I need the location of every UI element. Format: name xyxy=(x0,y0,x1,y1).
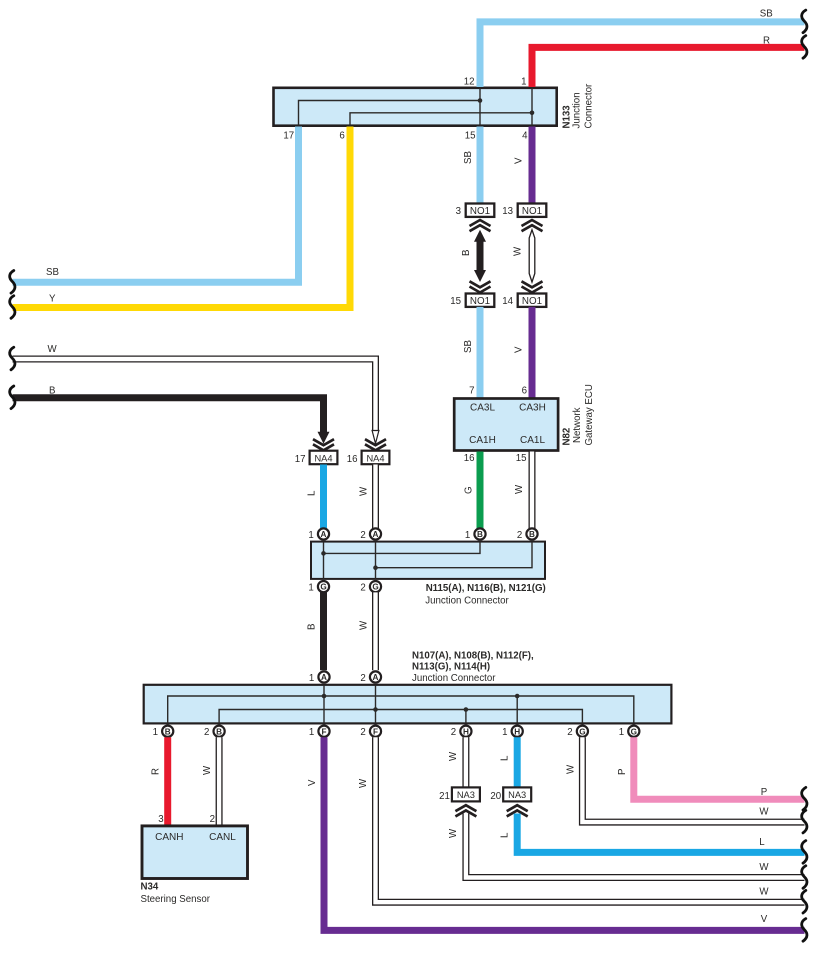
svg-text:1: 1 xyxy=(308,530,313,541)
svg-text:Gateway ECU: Gateway ECU xyxy=(584,384,595,445)
node N107 pin B2 xyxy=(214,726,225,737)
arrow chevrons above NA4 pin16 xyxy=(365,439,386,445)
connector NO1 pin14 box xyxy=(518,294,547,307)
wire V vertical N133 pin4 to NO1 pin13 xyxy=(529,127,536,204)
svg-text:SB: SB xyxy=(760,9,773,20)
arrow chevrons below NO1 pin13 xyxy=(522,220,543,226)
connector NO1 pin15 box xyxy=(466,294,495,307)
svg-text:G: G xyxy=(631,727,637,736)
svg-text:N107(A), N108(B), N112(F),: N107(A), N108(B), N112(F), xyxy=(412,651,534,662)
svg-text:Steering Sensor: Steering Sensor xyxy=(141,894,211,905)
svg-text:W: W xyxy=(759,807,769,818)
svg-text:16: 16 xyxy=(464,453,475,464)
svg-text:CA1L: CA1L xyxy=(520,435,545,446)
svg-text:W: W xyxy=(448,828,459,838)
junction dot N133 pin12 net xyxy=(478,98,483,103)
node N115 pin G1 xyxy=(318,581,329,592)
wire Y yellow left from N133 pin6 xyxy=(13,127,351,308)
junction dot N107 H1 net xyxy=(515,694,520,699)
wire W white left to NA4 pin16 xyxy=(13,359,376,431)
svg-text:W: W xyxy=(358,778,369,788)
svg-text:15: 15 xyxy=(450,296,461,307)
junction dot N107 A1 net xyxy=(322,694,327,699)
svg-text:SB: SB xyxy=(463,340,474,353)
wire W white NA3 pin21 to right edge xyxy=(466,814,805,878)
svg-text:V: V xyxy=(761,914,768,925)
svg-text:N115(A), N116(B), N121(G): N115(A), N116(B), N121(G) xyxy=(426,583,546,594)
arrow chevrons below NA3 pin21 xyxy=(455,805,476,811)
wire L blue N107 H1 to NA3 pin20 xyxy=(514,737,521,788)
svg-text:CANH: CANH xyxy=(155,832,183,843)
svg-text:V: V xyxy=(514,346,525,353)
svg-text:L: L xyxy=(500,755,511,761)
svg-text:2: 2 xyxy=(360,673,365,684)
svg-text:16: 16 xyxy=(347,454,358,465)
svg-text:H: H xyxy=(463,727,469,736)
svg-text:B: B xyxy=(461,250,472,256)
svg-text:B: B xyxy=(477,530,483,539)
wire R red top right xyxy=(532,47,805,87)
svg-text:NA4: NA4 xyxy=(366,453,384,463)
svg-text:4: 4 xyxy=(522,130,528,141)
svg-text:W: W xyxy=(202,765,213,775)
svg-text:B: B xyxy=(49,386,55,397)
svg-text:1: 1 xyxy=(502,727,507,738)
svg-text:W: W xyxy=(759,862,769,873)
svg-text:17: 17 xyxy=(283,130,294,141)
junction dot N107 A2 net xyxy=(373,707,378,712)
svg-text:6: 6 xyxy=(339,130,344,141)
svg-text:B: B xyxy=(216,727,222,736)
svg-text:Y: Y xyxy=(49,294,56,305)
wire V vertical NO1 pin14 to N82 pin6 xyxy=(529,307,536,399)
wire V violet N107 F1 to right edge xyxy=(324,737,805,930)
svg-text:L: L xyxy=(307,490,318,496)
svg-text:SB: SB xyxy=(463,151,474,164)
sensor N34 box xyxy=(142,826,248,879)
svg-text:21: 21 xyxy=(439,791,450,802)
wire W white N107 H2 to NA3 pin21 xyxy=(462,737,469,788)
break squiggle W H2 right xyxy=(802,866,807,889)
arrow chevrons above NO1 pin14 xyxy=(522,281,543,287)
node N115 pin G2 xyxy=(370,581,381,592)
break squiggle L right xyxy=(802,841,807,864)
arrow chevrons above NA4 pin17 xyxy=(313,439,334,445)
node N107 pin G2 xyxy=(577,726,588,737)
svg-text:CA1H: CA1H xyxy=(469,435,496,446)
svg-text:NO1: NO1 xyxy=(522,206,542,217)
svg-text:6: 6 xyxy=(522,386,527,397)
svg-text:G: G xyxy=(320,583,326,592)
svg-text:CA3H: CA3H xyxy=(519,403,546,414)
node N115 pin B1 xyxy=(474,528,485,539)
svg-text:SB: SB xyxy=(46,267,59,278)
svg-text:P: P xyxy=(761,787,767,798)
wire G green N82 pin16 to N115 B1 xyxy=(477,452,484,529)
junction connector N107 box xyxy=(144,685,672,724)
wire B black left to NA4 pin17 xyxy=(13,398,324,432)
svg-text:15: 15 xyxy=(465,130,476,141)
svg-text:13: 13 xyxy=(502,206,513,217)
node N107 pin A2 xyxy=(370,671,381,682)
break squiggle V right xyxy=(802,919,807,942)
svg-text:CANL: CANL xyxy=(209,832,236,843)
wire N133 internal pin12-pin15 vertical xyxy=(479,88,481,126)
svg-text:NO1: NO1 xyxy=(522,296,542,307)
wire SB light blue top right xyxy=(480,22,805,87)
wire P pink N107 G1 to right edge xyxy=(634,737,805,799)
svg-text:14: 14 xyxy=(502,296,513,307)
svg-text:7: 7 xyxy=(469,386,474,397)
break squiggle Y left xyxy=(10,296,15,319)
junction dot N115 A2 net xyxy=(373,565,378,570)
break squiggle SB left xyxy=(10,271,15,294)
svg-text:1: 1 xyxy=(619,727,624,738)
svg-text:F: F xyxy=(373,727,378,736)
node N107 pin A1 xyxy=(318,671,329,682)
wire W white N107 G2 to right edge xyxy=(582,737,804,822)
connector NA4 pin17 box xyxy=(310,451,338,465)
svg-text:1: 1 xyxy=(465,530,470,541)
svg-text:W: W xyxy=(514,484,525,494)
svg-text:Junction: Junction xyxy=(572,92,583,128)
svg-text:NA3: NA3 xyxy=(508,790,526,800)
wire N133 internal pin6 to pin4 net xyxy=(350,113,532,126)
svg-text:Network: Network xyxy=(572,407,583,443)
svg-text:CA3L: CA3L xyxy=(470,403,495,414)
svg-text:NO1: NO1 xyxy=(470,206,490,217)
svg-text:A: A xyxy=(321,673,327,682)
svg-text:1: 1 xyxy=(521,76,526,87)
svg-text:15: 15 xyxy=(516,453,527,464)
node N107 pin H2 xyxy=(460,726,471,737)
connector NA3 pin21 box xyxy=(452,787,480,801)
svg-text:B: B xyxy=(529,530,535,539)
wire N115 internal A2 to B2 xyxy=(376,542,533,568)
svg-text:H: H xyxy=(514,727,520,736)
svg-text:2: 2 xyxy=(360,727,365,738)
node N107 pin B1 xyxy=(162,726,173,737)
svg-text:G: G xyxy=(372,583,378,592)
svg-text:P: P xyxy=(617,769,628,775)
wire N107 internal A2-F2 vertical xyxy=(375,685,377,724)
wire W white N82 pin15 to N115 B2 xyxy=(529,452,536,529)
wire N107 internal H2 vertical xyxy=(465,710,467,724)
svg-text:2: 2 xyxy=(210,814,215,825)
arrow chevrons below NO1 pin3 xyxy=(470,220,491,226)
connector NO1 pin13 box xyxy=(518,204,547,217)
svg-text:W: W xyxy=(513,246,524,256)
arrow chevrons above NO1 pin15 xyxy=(470,281,491,287)
svg-text:NA4: NA4 xyxy=(314,453,332,463)
svg-text:12: 12 xyxy=(464,76,475,87)
wire N107 internal A1-F1 vertical xyxy=(323,685,325,724)
wire N115 internal A1-G1 vertical xyxy=(323,542,325,579)
junction dot N133 pin4 net xyxy=(530,111,535,116)
connector NA3 pin20 box xyxy=(503,787,531,801)
svg-text:2: 2 xyxy=(517,530,522,541)
wire N107 internal lower net B2-A2-H2-G2 xyxy=(219,710,582,724)
svg-text:Junction Connector: Junction Connector xyxy=(425,596,509,607)
svg-text:1: 1 xyxy=(309,673,314,684)
svg-text:B: B xyxy=(165,727,171,736)
svg-text:3: 3 xyxy=(456,206,461,217)
svg-text:A: A xyxy=(373,530,379,539)
break squiggle W F2 right xyxy=(802,890,807,913)
svg-text:2: 2 xyxy=(360,530,365,541)
node N107 pin H1 xyxy=(512,726,523,737)
node N115 pin B2 xyxy=(526,528,537,539)
wire N107 internal H1 vertical xyxy=(516,696,518,723)
svg-text:B: B xyxy=(307,624,318,630)
wire N133 internal pin17 to pin12 net xyxy=(299,101,481,126)
wire W white twisted pair link xyxy=(529,230,535,282)
svg-text:1: 1 xyxy=(309,727,314,738)
svg-text:W: W xyxy=(48,344,58,355)
wire W white NA4 pin16 to N115 A2 xyxy=(372,465,379,529)
svg-text:W: W xyxy=(359,620,370,630)
svg-text:R: R xyxy=(151,768,162,775)
svg-text:W: W xyxy=(359,486,370,496)
svg-text:N113(G), N114(H): N113(G), N114(H) xyxy=(412,662,490,673)
break squiggle B left xyxy=(10,386,15,409)
break squiggle SB top right xyxy=(802,10,807,33)
svg-text:NA3: NA3 xyxy=(457,790,475,800)
svg-text:2: 2 xyxy=(360,582,365,593)
node N115 pin A1 xyxy=(318,528,329,539)
wire W white N107 F2 to right edge xyxy=(376,737,805,902)
svg-text:W: W xyxy=(759,887,769,898)
break squiggle P right xyxy=(802,787,807,810)
wire N133 internal pin1-pin4 vertical xyxy=(531,88,533,126)
wire B black twisted pair link xyxy=(477,242,484,271)
svg-text:2: 2 xyxy=(567,727,572,738)
wire W white N115 G2 to N107 A2 xyxy=(372,592,379,670)
svg-text:2: 2 xyxy=(451,727,456,738)
svg-text:A: A xyxy=(373,673,379,682)
svg-text:G: G xyxy=(464,486,475,494)
svg-text:1: 1 xyxy=(308,582,313,593)
svg-text:NO1: NO1 xyxy=(470,296,490,307)
junction dot N115 A1 net xyxy=(321,551,326,556)
arrow chevrons below NA3 pin20 xyxy=(507,805,528,811)
junction connector N133 box xyxy=(274,88,557,126)
wire L blue NA4 pin17 to N115 A1 xyxy=(320,465,327,529)
break squiggle W left xyxy=(10,347,15,370)
wire SB light blue left from N133 pin17 xyxy=(13,127,299,283)
wire B black N115 G1 to N107 A1 xyxy=(320,592,327,670)
svg-text:A: A xyxy=(321,530,327,539)
svg-text:3: 3 xyxy=(158,814,163,825)
node N107 pin F1 xyxy=(318,726,329,737)
wire N115 internal A2-G2 vertical xyxy=(375,542,377,579)
svg-text:V: V xyxy=(514,157,525,164)
wire N115 internal A1 to B1 xyxy=(324,542,481,554)
break squiggle R top right xyxy=(802,36,807,59)
svg-text:F: F xyxy=(321,727,326,736)
wire R red N107 B1 to N34 pin3 xyxy=(164,737,171,827)
svg-text:20: 20 xyxy=(490,791,501,802)
svg-text:17: 17 xyxy=(295,454,306,465)
node N107 pin G1 xyxy=(628,726,639,737)
svg-text:G: G xyxy=(579,727,585,736)
svg-text:N34: N34 xyxy=(141,882,159,893)
wire N107 internal upper net B1-A1-H1-G1 xyxy=(168,696,634,723)
svg-text:L: L xyxy=(500,832,511,838)
connector NA4 pin16 box xyxy=(362,451,390,465)
wire L blue NA3 pin20 to right edge xyxy=(517,814,804,853)
svg-text:W: W xyxy=(566,764,577,774)
svg-text:Junction Connector: Junction Connector xyxy=(412,673,496,684)
svg-text:N82: N82 xyxy=(562,428,573,446)
junction dot N107 H2 net xyxy=(464,707,469,712)
junction connector N115 box xyxy=(311,542,545,579)
break squiggle W G2 right xyxy=(802,810,807,833)
svg-text:V: V xyxy=(307,779,318,786)
svg-text:1: 1 xyxy=(153,727,158,738)
svg-text:R: R xyxy=(763,35,770,46)
svg-text:Connector: Connector xyxy=(584,83,595,128)
svg-text:L: L xyxy=(759,837,765,848)
wire W white N107 B2 to N34 pin2 xyxy=(216,737,223,827)
svg-text:2: 2 xyxy=(204,727,209,738)
wire SB vertical N133 pin15 to NO1 pin3 xyxy=(477,127,484,204)
ECU N82 box xyxy=(454,399,558,451)
svg-text:W: W xyxy=(448,751,459,761)
node N107 pin F2 xyxy=(370,726,381,737)
connector NO1 pin3 box xyxy=(466,204,495,217)
wire SB vertical NO1 pin15 to N82 pin7 xyxy=(477,307,484,399)
node N115 pin A2 xyxy=(370,528,381,539)
